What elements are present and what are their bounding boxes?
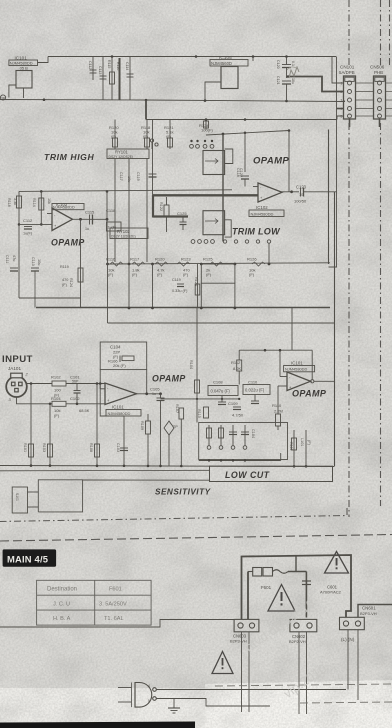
wire bus L1 [48,56,336,58]
svg-text:C112: C112 [88,61,92,69]
bracket lower [225,220,232,237]
resistor rail [108,263,331,264]
svg-text:R112: R112 [231,360,241,365]
svg-text:0.33u (F): 0.33u (F) [172,289,188,293]
svg-text:10k: 10k [47,198,51,204]
svg-text:C121: C121 [276,76,280,85]
svg-text:R107: R107 [175,404,179,413]
op-amp U IC101 body [9,57,48,99]
svg-text:NJM4580DD: NJM4580DD [285,367,307,372]
power loop wiring [242,555,352,619]
resistor R125 [203,257,223,278]
op-amp IC101c [287,372,335,391]
wire main vertical right [334,192,336,466]
svg-text:C111: C111 [5,255,9,264]
wire thick to CN101 pin2 [288,77,343,92]
capacitor C121 [276,76,295,101]
op-amp IC101b label [106,405,141,417]
svg-text:SENSITIVITY: SENSITIVITY [155,488,212,497]
low cut filter block [199,423,288,460]
wire fuse drop [305,572,307,618]
svg-text:R118: R118 [7,198,11,207]
svg-text:C123: C123 [296,185,307,190]
resistor R123 [177,257,191,278]
svg-text:H. B. A: H. B. A [53,616,71,622]
capacitor C110 value box [243,380,270,404]
label C601 [320,585,342,595]
inductor L101 [300,430,311,466]
bottom-left white patch [0,688,208,728]
capacitor C103 [116,416,128,466]
wire plus input [19,223,52,225]
op-amp IC102b [253,183,292,202]
wire inner loop left [247,572,249,620]
resistor R117 [130,257,145,278]
svg-text:C105: C105 [150,387,160,392]
capacitor C125 [177,211,187,230]
resistor R119 [60,265,83,287]
wire bus L3 [146,119,337,121]
resistor R121 [164,120,174,150]
wire L1 to CN101 pin1 [332,57,343,84]
board boundary dash-dot top right [0,0,392,541]
capacitor C119 [136,120,157,198]
capacitor C113 column [98,57,107,100]
svg-text:CN506: CN506 [370,65,385,70]
capacitor C119b [172,278,188,293]
resistor R113b [197,407,209,418]
transformer T601 [118,683,156,708]
svg-text:(F): (F) [183,272,189,277]
svg-text:R122: R122 [159,202,163,211]
connector CN601 [340,617,365,629]
svg-text:5: 5 [341,115,343,119]
relay contact points [150,139,158,149]
watermark [242,596,352,704]
connector CN603 [234,619,259,631]
svg-text:T1. 6AL: T1. 6AL [104,616,124,622]
svg-text:OPAMP: OPAMP [292,389,327,399]
svg-text:C120: C120 [276,60,280,69]
svg-text:8.2K: 8.2K [233,366,242,371]
svg-text:NJM4560D: NJM4560D [211,61,232,66]
wire thick opamp input [153,194,258,196]
svg-text:F601: F601 [109,587,122,593]
wire input cold [17,397,106,404]
resistor R120b [155,257,168,278]
svg-text:R125: R125 [203,257,213,262]
svg-text:C118: C118 [106,208,116,213]
svg-text:C113: C113 [31,257,35,266]
svg-text:5A/DPB: 5A/DPB [339,70,355,75]
resistor R118b left [7,191,22,298]
svg-text:4: 4 [148,684,150,688]
svg-text:1u: 1u [152,392,156,396]
svg-text:C102: C102 [70,396,80,401]
wire L3 to CN101 pin5 [337,116,343,120]
relay contacts trim low [223,240,270,264]
wire CN601 drops [348,630,358,700]
svg-text:R116: R116 [116,62,120,70]
svg-text:NJM4580DD: NJM4580DD [251,211,274,216]
svg-text:S101: S101 [15,493,19,501]
resistor R120 [109,120,119,150]
svg-text:C109: C109 [228,401,238,406]
svg-text:10u: 10u [127,176,131,182]
wire top left node [19,190,232,192]
capacitor C101 [70,375,81,404]
svg-text:10u: 10u [37,259,41,265]
capacitor C105 [150,387,165,467]
svg-text:5: 5 [148,699,150,703]
svg-text:2: 2 [341,90,343,94]
node junction [287,75,290,78]
svg-text:CN601: CN601 [362,606,376,611]
capacitor C112 [23,218,33,236]
label CN601 right [360,606,377,616]
capacitor C601 [302,581,311,585]
svg-text:IC102: IC102 [256,205,268,210]
wire block bottom [199,453,281,462]
svg-text:C112: C112 [23,218,33,223]
wire thick vertical [152,195,154,217]
label CN603 [230,634,247,644]
svg-text:B2P3-VH: B2P3-VH [360,611,377,616]
svg-text:CN101: CN101 [340,65,355,70]
page edge black wedge [0,722,195,728]
svg-text:C115: C115 [85,210,95,215]
relay RY102 contacts lower [191,240,214,244]
wire bus L2 [0,100,345,102]
svg-text:(F): (F) [307,440,311,446]
svg-text:0.022u (F): 0.022u (F) [245,388,265,393]
wire box under rail [201,264,235,308]
node [99,382,162,395]
relay RY102 label [110,228,148,239]
capacitor C111 [5,255,18,271]
wire to CN101 pin4 [337,108,344,110]
wire output drop [80,219,82,308]
fuse F601 [248,568,306,577]
wire bus second line [0,469,210,472]
svg-text:LOW CUT: LOW CUT [225,470,270,480]
wire main bus ground [0,466,335,467]
wire vertical x336 lower [329,109,337,268]
node 3B [0,95,5,101]
wire CN101 to CN506 links [356,83,392,116]
resistor R101 [23,384,34,467]
svg-text:NJM4580DD: NJM4580DD [108,411,131,416]
resistor R116 [106,257,123,278]
op-amp IC105 body [205,67,238,101]
op-amp IC101c label [284,361,315,372]
resistor R107 [175,404,184,466]
trimmer TP101 [164,421,178,466]
pencil mark [289,67,299,78]
warning triangle 1 [325,552,349,574]
resistor R122 [159,197,169,232]
svg-text:INPUT: INPUT [2,354,33,365]
svg-text:1u(F): 1u(F) [23,232,33,236]
svg-text:OPAMP: OPAMP [253,156,289,167]
svg-text:C117: C117 [119,172,123,181]
wire T601 outputs [156,690,346,707]
wire thick lower bus [36,307,330,309]
svg-text:PHB: PHB [374,70,383,75]
svg-text:2.2M: 2.2M [274,409,283,414]
wire thick stub [153,215,188,217]
svg-text:R110: R110 [272,403,282,408]
svg-text:TRIM HIGH: TRIM HIGH [44,152,94,162]
resistor R118 [141,120,151,150]
ground [168,699,180,714]
svg-text:JA101: JA101 [8,366,21,371]
svg-text:R104: R104 [51,396,61,401]
svg-text:(F): (F) [132,272,138,277]
svg-text:(F): (F) [62,283,68,287]
svg-text:Destination: Destination [47,587,77,593]
relay RY101 [107,149,149,159]
relay RY102 coil upper [203,151,225,175]
svg-text:C114: C114 [125,62,129,70]
node output [290,190,293,193]
svg-text:DS2Y 12(DS2E): DS2Y 12(DS2E) [111,235,136,239]
label MAIN 4/5 [3,549,57,566]
board boundary dashed bottom right [215,684,392,703]
connector JA101 XLR [6,372,28,403]
relay RY102 coil lower [203,211,225,235]
svg-text:TP: TP [173,425,178,429]
wire main board bottom [0,620,234,628]
op-amp IC102b label [249,205,284,217]
op-amp IC101 label [9,56,38,71]
svg-text:IC101: IC101 [112,405,124,410]
connector CN506 label [370,65,385,76]
node on L1 [111,55,288,58]
svg-text:B2P2-VH: B2P2-VH [289,639,306,644]
svg-text:(F): (F) [206,272,212,277]
wire feedback lowcut [239,349,312,380]
resistor R104 [51,396,66,418]
node on L3 [205,118,247,121]
trim box right edge [328,130,330,265]
capacitor C116 column [125,57,134,100]
capacitor C115 [85,210,95,232]
wire signal path lowcut [161,398,240,400]
svg-text:C108: C108 [213,380,223,385]
switch S101 sensitivity [12,480,82,513]
wire trim centre vertical [222,134,224,242]
node bus [30,464,308,467]
svg-text:3: 3 [341,99,343,103]
resistor R104b [189,308,200,423]
wire CN603 drops [242,632,250,712]
node [18,190,109,226]
svg-text:OPAMP: OPAMP [152,374,186,384]
resistor R115 column [107,57,115,100]
wire thick drop at R116 [116,58,120,100]
node on L2 [43,98,288,102]
wire feedback [106,191,109,264]
svg-text:R103: R103 [42,443,46,452]
node [30,382,99,405]
fuse table [37,580,152,625]
wire L2 to CN101 pin3 [343,100,345,102]
warning triangle 3 [212,652,233,674]
wire step L2-L3 [145,100,147,120]
svg-text:C103: C103 [116,443,120,452]
wire switch out [83,479,210,481]
capacitor C104 feedback box [100,342,147,370]
svg-text:05 B: 05 B [20,66,29,71]
svg-text:R109: R109 [140,421,144,430]
svg-text:R111: R111 [289,442,293,451]
svg-text:100/50: 100/50 [294,199,307,204]
svg-text:R104: R104 [189,360,193,369]
resistor R114 [32,191,51,224]
svg-text:1: 1 [341,82,343,86]
svg-text:4.7/50: 4.7/50 [232,413,244,418]
wire CN602 drops [299,632,307,714]
svg-text:J. C. U: J. C. U [53,601,70,607]
node thick bus [128,307,237,310]
svg-text:IC101: IC101 [291,361,303,366]
svg-text:0.1: 0.1 [291,61,295,66]
svg-text:3B: 3B [1,97,6,101]
svg-text:1u: 1u [85,227,89,231]
wire feedback top R124 [206,129,290,192]
svg-text:R113: R113 [197,409,201,418]
capacitor C117 [119,172,131,182]
op-amp IC101b [100,370,160,405]
capacitor C123 [292,185,337,204]
svg-text:(F): (F) [54,413,60,418]
op-amp IC102 label [52,202,84,210]
op-amp IC105 label [210,55,253,66]
wire minus drop [100,384,124,417]
svg-text:68.5K: 68.5K [79,408,90,413]
capacitor C112t column [88,57,97,81]
svg-text:R120: R120 [155,257,165,262]
svg-text:1u(F): 1u(F) [108,226,117,230]
svg-text:OPAMP: OPAMP [51,238,85,248]
svg-text:10: 10 [299,193,303,197]
svg-text:RY101: RY101 [115,150,128,155]
wire RY101 drops [115,159,147,265]
svg-text:R108: R108 [89,443,93,452]
svg-text:56P: 56P [72,380,79,384]
capacitor C109 [228,401,244,418]
svg-text:NJM4580DD: NJM4580DD [53,206,75,210]
resistor R112 [231,350,242,384]
svg-text:RY102: RY102 [117,229,130,234]
svg-text:47u: 47u [12,255,16,261]
connector CN101 [341,76,356,127]
svg-text:C113: C113 [98,66,102,74]
op-amp IC102 [47,208,107,231]
capacitor C118 [106,208,121,231]
wire drop left [19,297,81,299]
label CN602 [289,634,306,644]
svg-text:C119: C119 [172,278,181,282]
resistor R103 [42,404,53,466]
warning triangle 2 [268,585,295,612]
connector CN506 [374,76,386,127]
capacitor C120 [276,57,295,79]
svg-text:4: 4 [341,107,343,111]
resistor R124b [194,264,200,308]
wire lower link [108,264,335,323]
svg-text:20k (F): 20k (F) [113,363,126,368]
wire drop to lowcut [291,308,293,351]
svg-text:R119: R119 [60,265,69,269]
svg-text:R114: R114 [32,198,36,207]
bracket upper [225,149,233,164]
svg-text:MAIN 4/5: MAIN 4/5 [7,553,48,564]
svg-text:R123: R123 [181,257,191,262]
resistor R105 [70,396,90,413]
capacitor C113b [31,257,41,308]
svg-text:C125: C125 [177,211,187,216]
svg-text:R115: R115 [107,60,111,68]
capacitor C122 [239,168,249,187]
svg-text:470: 470 [62,278,68,282]
resistor R110 [272,386,287,430]
connector CN101 label [339,65,355,76]
node rail junctions [106,263,270,266]
svg-text:R102: R102 [51,375,61,380]
svg-text:3. 5A/250V: 3. 5A/250V [99,601,127,607]
wire branch [295,556,297,572]
svg-text:F601: F601 [261,585,272,590]
node output [79,218,108,221]
svg-text:R126: R126 [247,257,257,262]
wire input hot [27,383,105,385]
label box LOW CUT [210,466,333,481]
svg-text:(F): (F) [157,272,163,277]
svg-text:0.047u (F): 0.047u (F) [211,389,231,394]
resistor R102 [51,375,66,398]
svg-text:A700P/AC2: A700P/AC2 [320,590,342,595]
connector CN602 [290,619,317,631]
wire CN601 pin2 [358,605,392,618]
svg-text:L101: L101 [300,438,304,446]
resistor R108 [89,384,100,467]
svg-text:TRIM LOW: TRIM LOW [232,227,281,237]
svg-text:C104: C104 [251,429,255,438]
resistor R126 [247,257,265,278]
svg-text:(F): (F) [108,272,114,277]
svg-text:10u: 10u [291,78,295,84]
svg-text:C119: C119 [136,172,140,181]
svg-text:C110: C110 [248,380,258,385]
capacitor C108 value box [208,380,238,405]
wire vertical feed x336 [336,57,338,109]
resistor R111 [289,430,297,466]
bottom-right white patch [205,680,392,728]
wire rail drops [129,264,153,308]
svg-text:R101: R101 [23,443,27,452]
svg-text:(F): (F) [249,272,255,277]
resistor R109 [140,414,151,466]
resistor R124 [199,120,213,133]
relay RY102 contacts upper [190,140,214,148]
svg-text:R124: R124 [69,278,73,287]
svg-text:DS2Y 12(DS2E): DS2Y 12(DS2E) [109,155,134,159]
svg-text:R117: R117 [130,257,140,262]
